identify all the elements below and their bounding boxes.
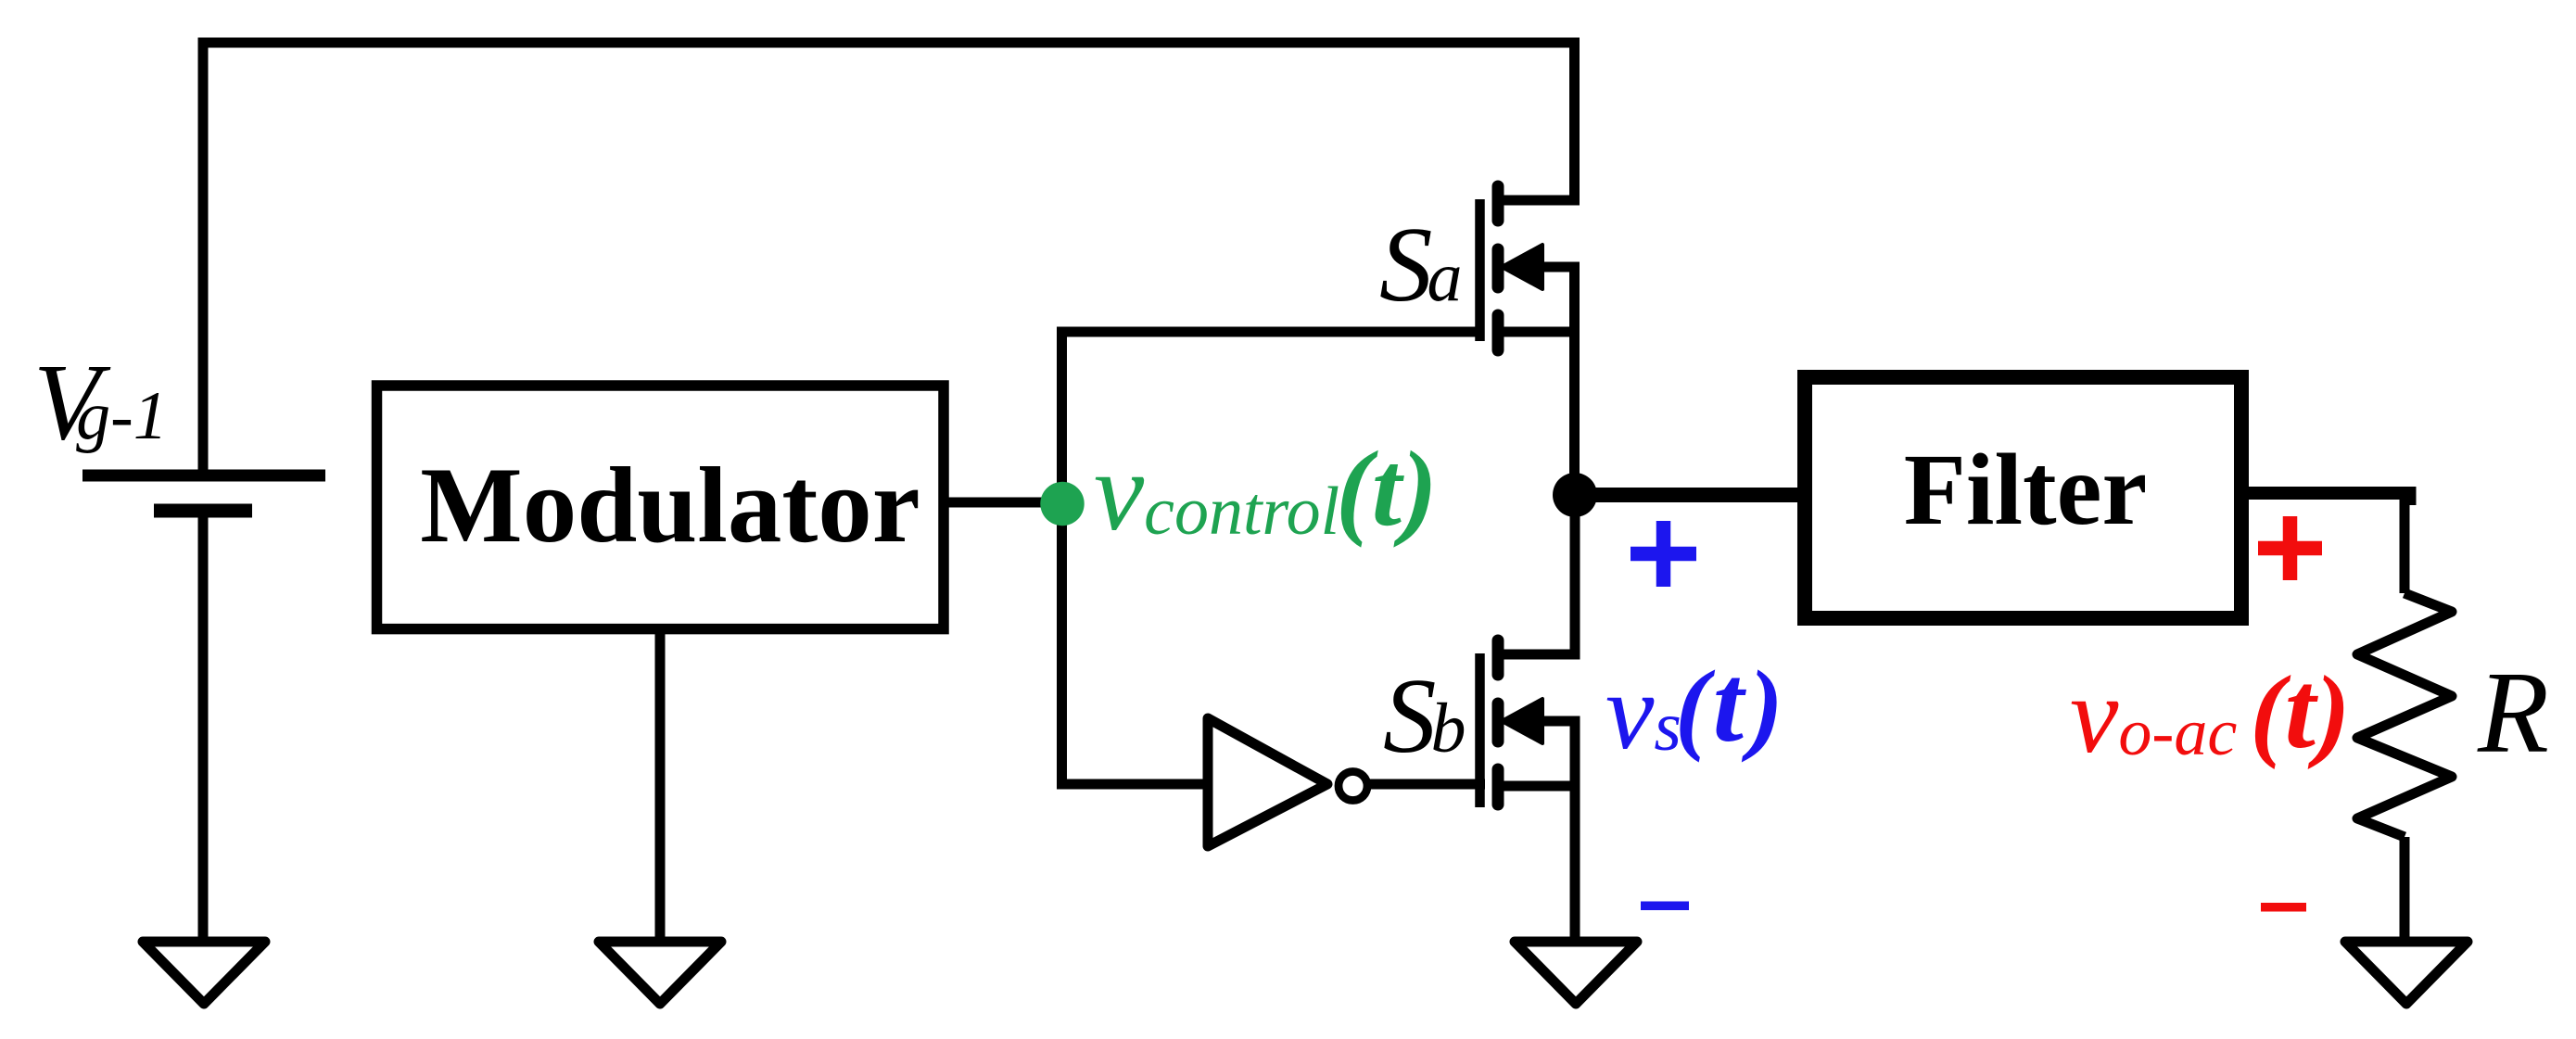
Sa source wire: [1498, 327, 1575, 337]
inverter U1: [1208, 718, 1327, 846]
wire: top horizontal from battery to Sa drain rail: [198, 38, 1580, 48]
resistor R zigzag: [2357, 593, 2452, 837]
wire: modulator ground lead: [655, 628, 666, 942]
Sb source wire: [1498, 781, 1575, 792]
wire: resistor bottom lead: [2400, 837, 2410, 942]
svg-text:R: R: [2477, 649, 2549, 778]
Sa channel dash 2: [1492, 249, 1504, 287]
wire: vertical control bus: [1057, 332, 1067, 784]
Sa body arrowhead: [1502, 245, 1542, 289]
wire: rail from Sb body to ground: [1570, 716, 1580, 943]
Filter box: [1805, 377, 2241, 618]
svg-text:Filter: Filter: [1904, 433, 2148, 546]
svg-text:Modulator: Modulator: [420, 446, 920, 565]
Sb body arrow wire: [1529, 716, 1580, 727]
ground (battery): [143, 942, 265, 1004]
wire: inverter input lead: [1057, 779, 1208, 790]
wire: node to Filter: [1575, 488, 1805, 502]
Sa body arrow wire: [1529, 262, 1580, 272]
label + (red, output): [2258, 516, 2322, 580]
Modulator box: [377, 386, 945, 629]
Sb channel dash 3: [1492, 769, 1504, 805]
wire: modulator output to node: [944, 498, 1062, 508]
label + (blue, switch node): [1631, 521, 1696, 587]
ground (Sb source): [1515, 942, 1637, 1004]
wire: rail from Sa body to output node: [1569, 262, 1580, 496]
ground (modulator): [599, 942, 721, 1004]
wire: Sa gate lead: [1057, 327, 1476, 337]
Sa drain wire: [1498, 196, 1575, 206]
label - (blue): [1641, 902, 1689, 911]
Sa gate bar: [1475, 199, 1485, 341]
wire: battery bottom lead: [198, 511, 209, 942]
label - (red): [2261, 903, 2306, 912]
Sa channel dash 1: [1492, 186, 1504, 221]
wire: left vertical battery top lead: [198, 38, 209, 476]
node vs (black dot): [1553, 473, 1597, 517]
svg-text:vs(t): vs(t): [1605, 641, 1783, 772]
inverter bubble: [1339, 772, 1367, 801]
ground (load): [2345, 942, 2468, 1004]
wire: rail from top wire to Sa drain: [1569, 43, 1580, 206]
Sb body arrowhead: [1502, 699, 1542, 743]
wire: rail from node to Sb drain: [1570, 495, 1580, 660]
battery Vg-1 long plate: [82, 470, 325, 482]
Sb channel dash 2: [1492, 703, 1504, 741]
transistor Sa: [1480, 186, 1580, 350]
Sb channel dash 1: [1492, 640, 1504, 675]
transistor Sb: [1480, 640, 1580, 807]
node vcontrol (green dot): [1040, 482, 1084, 526]
battery Vg-1 short plate: [154, 504, 252, 518]
wire: inverter output to Sb gate: [1366, 779, 1485, 790]
wire: resistor top lead: [2400, 495, 2410, 593]
Sb drain wire: [1498, 650, 1575, 660]
Sa channel dash 3: [1492, 315, 1504, 350]
Sb gate bar: [1475, 653, 1485, 807]
wire: Filter output to resistor: [2241, 493, 2410, 505]
